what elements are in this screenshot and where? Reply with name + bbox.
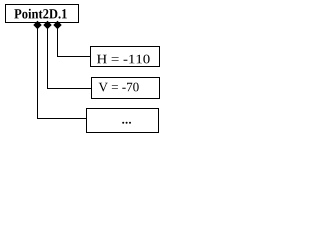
attribute box H [91, 47, 160, 67]
wire from diamond 3 to H box [58, 25, 91, 57]
aggregation diamond 1 [33, 21, 41, 29]
aggregation diamond 2 [43, 21, 51, 29]
value label V = -70 [99, 83, 139, 92]
aggregation diamond 3 [53, 21, 61, 29]
attribute box ellipsis [87, 109, 159, 133]
wire from diamond 1 to ... box [38, 25, 87, 119]
value label H = -110 [97, 55, 150, 64]
node box Point2D.1 [6, 5, 79, 23]
wire from diamond 2 to V box [48, 25, 92, 89]
label Point2D.1 [14, 9, 66, 19]
attribute box V [92, 78, 160, 99]
ellipsis dots [122, 122, 124, 124]
